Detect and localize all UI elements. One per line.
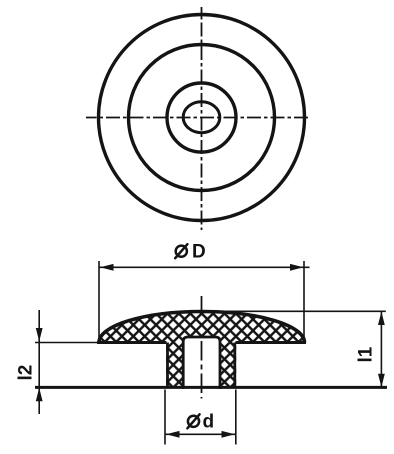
svg-text:D: D bbox=[192, 242, 206, 263]
svg-text:l1: l1 bbox=[355, 346, 376, 362]
svg-text:l2: l2 bbox=[16, 365, 37, 381]
svg-text:d: d bbox=[203, 412, 215, 433]
